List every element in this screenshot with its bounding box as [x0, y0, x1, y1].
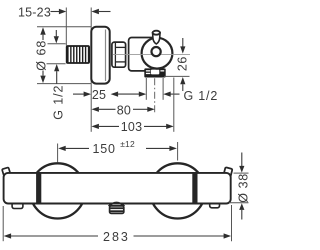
- dimension 80: [91, 107, 99, 112]
- top knob: [153, 33, 160, 44]
- dimension 15-23 right arrow: [91, 9, 99, 14]
- svg-text:25: 25: [92, 88, 106, 102]
- dimension 15-23 left arrow: [51, 11, 60, 13]
- extension line disc top y=26.8: [37, 26, 91, 28]
- disc shading line: [105, 30, 107, 82]
- threaded nipple: [66, 45, 90, 64]
- extension line valve right x=173.8: [173, 78, 175, 132]
- right handle top tab: [223, 167, 232, 177]
- dimension 283 right arrow: [134, 235, 225, 237]
- svg-text:103: 103: [121, 120, 142, 134]
- svg-text:150: 150: [93, 142, 116, 156]
- hose outlet dome: [109, 203, 125, 207]
- dimension G1/2 left down arrow: [55, 30, 57, 36]
- escutcheon disc side view: [91, 27, 109, 84]
- extension line wall/disc face x=91.2: [90, 8, 92, 132]
- dimension D38 bottom arrow: [239, 203, 244, 210]
- svg-text:80: 80: [117, 104, 131, 118]
- svg-text:15-23: 15-23: [18, 6, 51, 20]
- svg-text:±12: ±12: [120, 139, 135, 149]
- svg-text:G 1/2: G 1/2: [52, 85, 66, 120]
- extension line thread top y=43.8: [48, 43, 66, 45]
- dimension G1/2 left up arrow: [54, 64, 59, 71]
- extension line right escutcheon center: [177, 142, 179, 161]
- left handle top tab: [2, 167, 10, 175]
- right handle divider: [192, 174, 197, 203]
- axis centerline: [113, 53, 191, 55]
- dimension D68 top arrow: [40, 27, 45, 35]
- right handle bottom button: [210, 203, 220, 208]
- dimension 150 right arrow: [146, 147, 171, 149]
- dimension 26 top arrow: [182, 38, 184, 47]
- svg-text:283: 283: [103, 230, 130, 244]
- mixer bar body: [4, 173, 231, 204]
- left handle bottom button: [12, 203, 23, 209]
- extension line outlet right x=163.1: [162, 78, 164, 100]
- extension line mixer left x=3.2: [2, 206, 4, 241]
- dimension 26 bottom arrow: [180, 77, 185, 84]
- svg-text:Ø 68: Ø 68: [34, 40, 48, 71]
- dimension D68 bottom arrow: [40, 76, 45, 84]
- left handle divider: [36, 174, 41, 203]
- svg-text:Ø 38: Ø 38: [236, 173, 250, 203]
- extension line disc bottom y=83.6: [37, 83, 91, 85]
- dimension D38 top arrow: [241, 153, 243, 167]
- dimension 25 left arrow: [73, 93, 84, 95]
- valve body: [129, 38, 160, 71]
- outlet centerline dashed: [154, 78, 156, 114]
- valve face circle: [142, 38, 173, 69]
- extension line outlet bottom y=76.4: [164, 75, 190, 77]
- extension line thread bottom y=63.7: [47, 63, 66, 65]
- extension line left escutcheon center: [57, 144, 59, 163]
- extension line bar bottom right y=202.7: [229, 202, 249, 204]
- right escutcheon circle: [150, 163, 205, 218]
- hub small circle: [152, 47, 161, 56]
- dimension 103: [91, 124, 99, 129]
- outlet foot: [144, 68, 165, 77]
- dimension G1/2 right arrow: [163, 92, 171, 97]
- union nut: [112, 42, 126, 67]
- dimension 150 left arrow: [58, 146, 65, 151]
- extension line mixer right x=231.5: [231, 205, 233, 241]
- dimension 283 left arrow: [4, 233, 12, 238]
- extension line thread tip x=66.3: [65, 8, 67, 46]
- dimension 25/G12 middle arrows: [111, 92, 119, 97]
- extension line outlet left x=146.3: [145, 78, 147, 100]
- extension line bar top right y=173.1: [234, 172, 249, 174]
- svg-text:26: 26: [176, 56, 190, 71]
- left escutcheon circle: [30, 163, 85, 218]
- svg-text:G 1/2: G 1/2: [184, 89, 219, 103]
